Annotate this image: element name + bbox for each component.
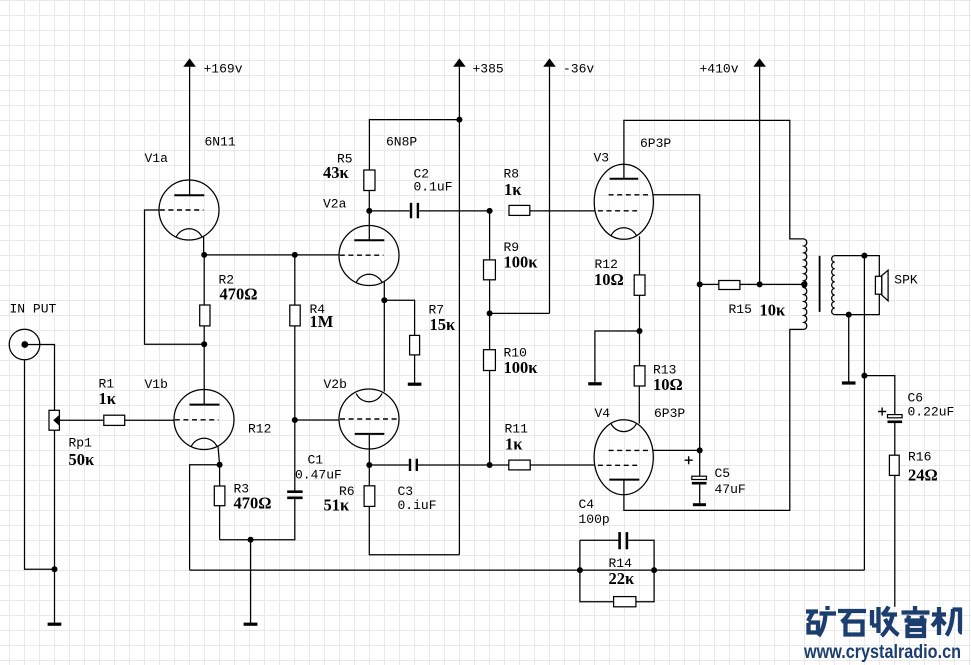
wire R3 bottom lead xyxy=(219,506,221,540)
svg-text:51κ: 51κ xyxy=(324,496,351,515)
capacitor C2 xyxy=(411,203,418,218)
tube V2b (flipped) xyxy=(339,389,399,449)
tube V3 6P3P xyxy=(594,164,653,239)
wire cathode ground branch xyxy=(595,331,639,382)
tube V4 6P3P (flipped) xyxy=(594,420,653,495)
wire node V1a cathode to V2a grid xyxy=(204,254,339,256)
junction primary tap node xyxy=(801,281,807,287)
junction +385 rail tap xyxy=(456,117,462,123)
junction -36v R9-R10 node xyxy=(487,310,493,316)
wire R15 net xyxy=(700,283,804,285)
svg-text:10Ω: 10Ω xyxy=(594,270,624,289)
resistor R16 xyxy=(889,455,899,475)
junction g2 rail R15 node xyxy=(697,281,703,287)
junction +410 rail node xyxy=(757,281,763,287)
ground at input xyxy=(48,623,62,626)
resistor R14 xyxy=(614,597,636,607)
power arrow +385 xyxy=(454,59,465,555)
resistor R4 xyxy=(290,305,300,326)
wire R5 top to +385 rail xyxy=(369,120,459,170)
junction V2b plate node xyxy=(366,462,372,468)
svg-text:6P3P: 6P3P xyxy=(654,406,685,421)
wire node B to V2b grid xyxy=(295,419,340,421)
wire V3 cathode to R12 xyxy=(639,236,641,275)
svg-text:0.22uF: 0.22uF xyxy=(908,405,955,420)
wire input jack to pot xyxy=(28,345,55,411)
resistor R5 xyxy=(364,170,375,191)
resistor R3 xyxy=(214,486,225,506)
junction R14 left node xyxy=(577,567,583,573)
svg-text:470Ω: 470Ω xyxy=(234,494,272,513)
svg-text:R16: R16 xyxy=(908,450,931,465)
resistor R2 xyxy=(200,305,210,326)
ground at cathode R12 xyxy=(588,382,602,385)
svg-text:V3: V3 xyxy=(594,151,610,166)
wire V3 g2 column xyxy=(653,195,700,476)
svg-text:C4: C4 xyxy=(579,497,595,512)
svg-text:+385: +385 xyxy=(473,62,504,77)
svg-text:0.47uF: 0.47uF xyxy=(295,468,342,483)
wire C6 branch xyxy=(864,376,894,607)
wire secondary bottom to speaker xyxy=(835,294,880,314)
svg-text:SPK: SPK xyxy=(894,272,918,287)
junction R10-R11 node xyxy=(487,462,493,468)
wire secondary ground drop xyxy=(848,315,850,382)
resistor R9 xyxy=(484,260,496,280)
wire R5 bottom to V2a plate xyxy=(368,191,370,241)
wire ground drop at R3 xyxy=(250,540,252,623)
junction R12-R13 cathode node xyxy=(637,328,643,334)
junction V1b plate node xyxy=(201,341,207,347)
wire R1 to V1b grid xyxy=(125,419,175,421)
svg-text:470Ω: 470Ω xyxy=(220,285,258,304)
svg-text:15κ: 15κ xyxy=(430,315,457,334)
junction V2b grid node xyxy=(292,417,298,423)
svg-text:C6: C6 xyxy=(908,391,924,406)
svg-text:+410v: +410v xyxy=(700,62,739,77)
wire secondary top to speaker xyxy=(835,256,880,277)
svg-text:1κ: 1κ xyxy=(99,389,117,408)
watermark hanzi shi xyxy=(838,611,866,635)
resistor R1 xyxy=(104,415,125,425)
svg-text:47uF: 47uF xyxy=(715,482,746,497)
svg-text:IN PUT: IN PUT xyxy=(10,302,57,317)
wire pot wiper to R1 xyxy=(58,419,104,421)
wire V1b cathode loop to bottom rail xyxy=(190,465,220,570)
junction secondary top node xyxy=(861,253,867,259)
svg-text:24Ω: 24Ω xyxy=(908,466,938,485)
svg-text:1M: 1M xyxy=(310,312,334,331)
resistor R8 xyxy=(509,205,530,215)
wire V2b plate node through C3 to R11 to V4 grid xyxy=(369,464,595,466)
wire C5 lower lead xyxy=(699,484,701,503)
svg-text:V1a: V1a xyxy=(145,151,169,166)
junction C6 feedback node xyxy=(861,373,867,379)
wire V2b plate to R6 xyxy=(368,434,370,486)
svg-text:www.crystalradio.cn: www.crystalradio.cn xyxy=(803,642,961,663)
ground at speaker secondary xyxy=(842,381,856,384)
svg-text:R15: R15 xyxy=(729,302,752,317)
power arrow -36v xyxy=(544,59,555,313)
junction V2a-V2b cathode node xyxy=(381,297,387,303)
wire feedback from secondary top xyxy=(863,256,865,570)
svg-text:1κ: 1κ xyxy=(505,435,523,454)
wire V2a cathode to V2b cathode xyxy=(383,282,385,392)
svg-text:C1: C1 xyxy=(308,453,324,468)
resistor R12 xyxy=(634,275,645,295)
svg-text:10κ: 10κ xyxy=(760,301,787,320)
svg-text:-36v: -36v xyxy=(563,62,594,77)
wire -36v to R9 node xyxy=(490,312,550,314)
junction V2a plate node xyxy=(366,208,372,214)
svg-text:+169v: +169v xyxy=(204,62,243,77)
wire R13 bottom to V4 cathode xyxy=(638,386,640,424)
capacitor C3 xyxy=(410,459,417,471)
svg-text:50κ: 50κ xyxy=(69,450,96,469)
svg-text:100κ: 100κ xyxy=(504,358,539,377)
wire R7 branch xyxy=(384,300,414,382)
svg-text:100κ: 100κ xyxy=(504,253,539,272)
watermark hanzi ji xyxy=(932,607,962,636)
wire R14 box xyxy=(580,540,654,601)
watermark hanzi shou xyxy=(872,607,899,637)
wire R9 leads xyxy=(489,211,491,314)
resistor R10 xyxy=(484,350,496,371)
ground at R3 xyxy=(244,623,258,626)
resistor R7 xyxy=(410,335,420,355)
wire V4 plate to transformer bottom xyxy=(624,329,804,510)
svg-text:0.iuF: 0.iuF xyxy=(398,498,437,513)
junction R3 ground node xyxy=(248,537,254,543)
junction R4 top node xyxy=(292,252,298,258)
svg-text:1κ: 1κ xyxy=(504,180,522,199)
input jack IN PUT xyxy=(9,329,40,360)
capacitor C6 electrolytic xyxy=(878,408,902,422)
wire R12 bottom node xyxy=(639,295,641,366)
tube V1b xyxy=(174,390,234,450)
svg-text:V2a: V2a xyxy=(323,197,347,212)
junction V1b cathode node xyxy=(217,462,223,468)
junction input ground node xyxy=(52,566,58,572)
wire R4 bottom to node B xyxy=(294,326,296,420)
svg-text:100p: 100p xyxy=(579,512,610,527)
wire R10 leads xyxy=(489,313,491,465)
watermark hanzi yin xyxy=(902,606,930,636)
wire V1a cathode lead xyxy=(203,237,205,255)
wire R6 bottom to +385 rail corner xyxy=(369,506,459,554)
resistor R6 xyxy=(364,486,375,507)
capacitor C5 electrolytic xyxy=(685,456,707,505)
wire input shield to ground xyxy=(25,360,55,570)
wire V1a grid to node A xyxy=(145,210,205,344)
potentiometer Rp1 xyxy=(49,410,59,430)
wire V2a plate node through C2 to R8 xyxy=(369,210,595,212)
resistor R15 xyxy=(719,281,740,290)
power arrow +169v xyxy=(184,59,195,195)
svg-text:6N11: 6N11 xyxy=(205,135,236,150)
svg-text:22κ: 22κ xyxy=(609,569,636,588)
wire R2 bottom to V1b plate xyxy=(203,326,205,405)
capacitor C1 xyxy=(287,492,302,498)
svg-text:10Ω: 10Ω xyxy=(653,375,683,394)
wire R4 top lead xyxy=(294,255,296,305)
tube V2a xyxy=(339,226,399,286)
svg-text:6N8P: 6N8P xyxy=(386,135,417,150)
svg-text:C3: C3 xyxy=(398,484,414,499)
power arrow +410v xyxy=(754,59,765,284)
wire V4 g2 to C5 column xyxy=(653,449,700,451)
resistor R13 xyxy=(634,366,645,386)
junction R14 right node xyxy=(651,567,657,573)
resistor R11 xyxy=(509,460,530,470)
svg-text:C5: C5 xyxy=(715,466,731,481)
wire V3 plate to transformer top xyxy=(624,120,804,238)
transformer core xyxy=(819,256,821,312)
junction secondary bottom node xyxy=(846,312,852,318)
junction V4 g2 C5 node xyxy=(697,447,703,453)
tube V1a xyxy=(159,180,219,240)
svg-text:V4: V4 xyxy=(595,406,611,421)
svg-text:0.1uF: 0.1uF xyxy=(414,180,453,195)
ground at R7 xyxy=(408,383,422,386)
svg-text:6P3P: 6P3P xyxy=(640,136,671,151)
wire C1 bottom to R3 wire xyxy=(220,499,295,540)
transformer secondary coil xyxy=(832,256,835,315)
capacitor C4 xyxy=(620,532,627,549)
svg-text:V1b: V1b xyxy=(145,377,168,392)
svg-text:R12: R12 xyxy=(248,422,271,437)
svg-text:V2b: V2b xyxy=(324,377,347,392)
transformer primary coil xyxy=(804,239,807,329)
wire V1b cathode lead xyxy=(218,447,220,487)
junction R8-R9 node xyxy=(487,208,493,214)
wire bottom feedback rail xyxy=(190,569,865,571)
wire pot bottom to ground xyxy=(54,430,56,623)
svg-text:43κ: 43κ xyxy=(323,163,350,182)
watermark hanzi kuang xyxy=(806,606,836,636)
wire C1 top lead xyxy=(294,420,296,490)
junction V1a cathode node xyxy=(201,252,207,258)
svg-text:Rp1: Rp1 xyxy=(69,436,93,451)
wire R2 top lead xyxy=(203,255,205,305)
speaker SPK xyxy=(875,270,888,301)
